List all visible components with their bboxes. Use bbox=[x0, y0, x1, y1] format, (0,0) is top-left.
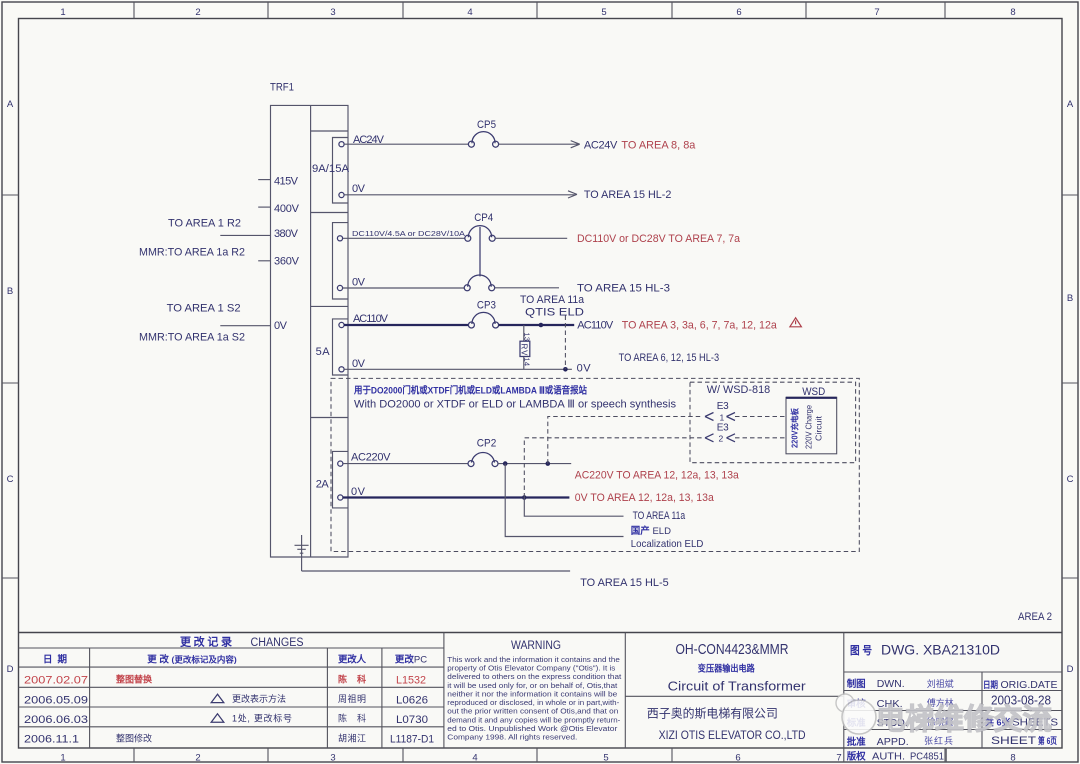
svg-text:out the prior written consent: out the prior written consent of Otis,an… bbox=[447, 709, 618, 716]
terminal DC w2 bbox=[337, 236, 342, 241]
svg-text:8: 8 bbox=[1010, 7, 1015, 18]
svg-text:A: A bbox=[1067, 99, 1074, 110]
wire AC110V left (thick) bbox=[344, 324, 468, 326]
svg-text:电梯维修交流: 电梯维修交流 bbox=[876, 702, 1052, 736]
left ruler letters bbox=[7, 99, 14, 675]
wire DC right bbox=[495, 237, 567, 239]
oh-con block borders bbox=[625, 633, 844, 749]
wire DC left bbox=[343, 237, 465, 239]
svg-text:WARNING: WARNING bbox=[511, 638, 561, 652]
svg-text:0V: 0V bbox=[351, 486, 366, 498]
svg-text:3: 3 bbox=[330, 7, 335, 18]
svg-text:1: 1 bbox=[720, 413, 725, 423]
winding box W2 bbox=[333, 223, 349, 299]
svg-text:D: D bbox=[1067, 664, 1074, 675]
svg-text:用于DO2000门机或XTDF门机或ELD或LAMBDA Ⅲ: 用于DO2000门机或XTDF门机或ELD或LAMBDA Ⅲ或语音报站 bbox=[353, 384, 587, 396]
warning triangle row3 bbox=[211, 714, 224, 722]
svg-text:0V: 0V bbox=[352, 358, 366, 370]
svg-text:D: D bbox=[7, 664, 14, 675]
svg-text:日期: 日期 bbox=[983, 679, 998, 690]
terminal AC24V bbox=[339, 142, 344, 147]
svg-text:制图: 制图 bbox=[847, 678, 866, 690]
right ruler letters bbox=[1067, 99, 1074, 675]
svg-text:XIZI OTIS ELEVATOR CO.,LTD: XIZI OTIS ELEVATOR CO.,LTD bbox=[659, 728, 806, 742]
fuse CP5 bbox=[468, 132, 498, 148]
dashed link WSD to E3 pin1 bbox=[735, 416, 786, 418]
svg-text:0V: 0V bbox=[274, 320, 288, 332]
fuse CP3 bbox=[468, 312, 498, 328]
svg-text:L1532: L1532 bbox=[396, 675, 426, 687]
ground bbox=[295, 535, 309, 571]
svg-text:图 号: 图 号 bbox=[850, 644, 872, 657]
svg-text:AC24V: AC24V bbox=[353, 134, 385, 146]
svg-text:DC110V or DC28V TO AREA 7, 7a: DC110V or DC28V TO AREA 7, 7a bbox=[577, 233, 741, 245]
svg-text:5: 5 bbox=[601, 7, 606, 18]
svg-text:5: 5 bbox=[603, 753, 608, 764]
svg-text:2: 2 bbox=[195, 753, 200, 764]
svg-text:AC110V: AC110V bbox=[353, 313, 389, 325]
svg-text:2006.06.03: 2006.06.03 bbox=[24, 714, 88, 726]
svg-text:demand it and any copies will: demand it and any copies will be promptl… bbox=[447, 717, 620, 724]
svg-text:ORIG.DATE: ORIG.DATE bbox=[1001, 679, 1058, 691]
wire 0V w1 with arrow bbox=[344, 191, 577, 198]
svg-text:it will be used only for, or o: it will be used only for, or on behalf o… bbox=[447, 683, 617, 690]
svg-text:TO AREA 11a: TO AREA 11a bbox=[520, 294, 585, 306]
wire 0V w3 bbox=[344, 368, 572, 370]
wire AC220V left bbox=[343, 463, 468, 465]
wire TO AREA 15 HL-5 bbox=[302, 570, 570, 572]
svg-text:TRF1: TRF1 bbox=[270, 82, 294, 94]
dwg block grid bbox=[844, 672, 1062, 748]
svg-text:7: 7 bbox=[836, 753, 841, 764]
varistor RV branch wire bbox=[523, 325, 525, 369]
changes row 2 bbox=[24, 693, 428, 706]
terminal AC220V bbox=[338, 461, 343, 466]
fuse CP4 pole2 bbox=[464, 275, 495, 291]
svg-text:C: C bbox=[1067, 474, 1074, 485]
svg-text:This work and the information: This work and the information it contain… bbox=[447, 657, 620, 664]
fuse CP4 gang link bbox=[479, 227, 481, 277]
dashed box WSD-818 bbox=[690, 382, 856, 463]
svg-text:CP3: CP3 bbox=[477, 300, 496, 312]
svg-text:CP2: CP2 bbox=[477, 437, 497, 449]
bottom ruler numbers bbox=[60, 753, 1015, 764]
winding box W1 bbox=[333, 138, 349, 204]
svg-text:AREA 2: AREA 2 bbox=[1018, 611, 1052, 623]
svg-text:1处, 更改标号: 1处, 更改标号 bbox=[232, 713, 292, 724]
svg-text:更 改 (更改标记及内容): 更 改 (更改标记及内容) bbox=[147, 654, 237, 666]
svg-text:8: 8 bbox=[1010, 753, 1015, 764]
dashed link 0V to E3 pin2 bbox=[524, 438, 703, 498]
svg-text:2007.02.07: 2007.02.07 bbox=[24, 675, 88, 687]
svg-text:TO AREA 1 S2: TO AREA 1 S2 bbox=[167, 303, 241, 315]
svg-text:C: C bbox=[7, 474, 14, 485]
svg-text:TO AREA 8, 8a: TO AREA 8, 8a bbox=[621, 140, 696, 152]
wire 0V w4 (thick) bbox=[343, 496, 569, 498]
svg-text:W/ WSD-818: W/ WSD-818 bbox=[707, 384, 771, 396]
svg-text:7: 7 bbox=[874, 7, 879, 18]
svg-text:1: 1 bbox=[60, 753, 65, 764]
svg-text:AC24V: AC24V bbox=[584, 140, 618, 152]
fuse CP2 bbox=[468, 453, 498, 467]
varistor RV body bbox=[520, 341, 530, 356]
dashed option box DO2000 bbox=[331, 378, 859, 551]
changes row 4 bbox=[24, 732, 434, 745]
svg-text:TO AREA 1 R2: TO AREA 1 R2 bbox=[168, 218, 241, 230]
svg-text:With DO2000 or XTDF or ELD or: With DO2000 or XTDF or ELD or LAMBDA Ⅲ o… bbox=[354, 398, 676, 410]
warning body text bbox=[447, 657, 621, 742]
svg-text:DWN.: DWN. bbox=[877, 678, 905, 690]
connector E3 pin1 arrows bbox=[705, 413, 735, 421]
svg-text:AC110V: AC110V bbox=[577, 319, 614, 331]
svg-text:E3: E3 bbox=[717, 422, 729, 433]
primary wire 0V bbox=[220, 325, 270, 327]
node dot AC220V b bbox=[546, 461, 551, 466]
terminal AC110V bbox=[339, 322, 344, 327]
transformer secondary dividers bbox=[311, 131, 348, 418]
svg-text:变压器输出电路: 变压器输出电路 bbox=[698, 663, 756, 674]
svg-text:reproduced or disclosed, in wh: reproduced or disclosed, in whole or in … bbox=[447, 700, 619, 707]
auth box bbox=[844, 748, 946, 762]
svg-text:6: 6 bbox=[735, 753, 740, 764]
primary tap 360V bbox=[258, 260, 270, 262]
svg-text:张红兵: 张红兵 bbox=[924, 735, 953, 746]
svg-text:2: 2 bbox=[719, 434, 724, 444]
svg-text:陈 科: 陈 科 bbox=[338, 713, 366, 724]
svg-text:TO AREA 15 HL-2: TO AREA 15 HL-2 bbox=[584, 189, 672, 201]
svg-text:L0626: L0626 bbox=[396, 694, 428, 706]
svg-text:0V: 0V bbox=[352, 183, 366, 195]
left ruler ticks bbox=[2, 195, 19, 578]
svg-text:周祖明: 周祖明 bbox=[338, 693, 366, 704]
primary tap 400V bbox=[258, 206, 270, 208]
wire 0V w2 right bbox=[495, 287, 559, 289]
terminal 0V w1 bbox=[339, 192, 344, 197]
svg-text:AC220V: AC220V bbox=[351, 451, 391, 463]
svg-text:更改人: 更改人 bbox=[338, 654, 366, 666]
svg-text:2: 2 bbox=[195, 7, 200, 18]
wire to AREA 11a bbox=[524, 498, 623, 517]
svg-text:L0730: L0730 bbox=[396, 714, 428, 726]
dashed stub QTIS ELD bbox=[564, 316, 566, 370]
svg-text:CP4: CP4 bbox=[474, 212, 493, 224]
primary tap 415V bbox=[258, 179, 270, 181]
wire AC220V right bbox=[498, 463, 571, 465]
svg-text:OH-CON4423&MMR: OH-CON4423&MMR bbox=[676, 641, 789, 658]
svg-text:TO AREA 3, 3a, 6, 7, 7a, 12, 1: TO AREA 3, 3a, 6, 7, 7a, 12, 12a bbox=[622, 319, 778, 331]
svg-text:CHANGES: CHANGES bbox=[251, 637, 304, 649]
svg-text:SHEET: SHEET bbox=[991, 735, 1036, 747]
svg-text:批准: 批准 bbox=[847, 736, 866, 748]
svg-text:14: 14 bbox=[523, 358, 532, 367]
svg-text:6: 6 bbox=[736, 7, 741, 18]
svg-text:delivered to others on the exp: delivered to others on the express condi… bbox=[447, 674, 621, 681]
bottom ruler dividers bbox=[134, 748, 945, 762]
svg-text:0V TO AREA 12, 12a, 13, 13a: 0V TO AREA 12, 12a, 13, 13a bbox=[575, 492, 715, 504]
svg-text:Circuit of Transformer: Circuit of Transformer bbox=[668, 679, 807, 694]
svg-text:220V充电板: 220V充电板 bbox=[790, 407, 800, 448]
svg-text:220V Charge: 220V Charge bbox=[805, 404, 814, 449]
node dot 0V w4 bbox=[522, 495, 527, 500]
svg-text:RV: RV bbox=[520, 344, 529, 357]
svg-text:360V: 360V bbox=[274, 256, 300, 268]
changes table header bbox=[43, 654, 427, 666]
svg-text:3: 3 bbox=[330, 753, 335, 764]
svg-text:WSD: WSD bbox=[802, 386, 825, 398]
svg-text:MMR:TO AREA 1a S2: MMR:TO AREA 1a S2 bbox=[139, 332, 245, 344]
svg-text:4: 4 bbox=[472, 753, 477, 764]
svg-text:B: B bbox=[1067, 293, 1073, 304]
svg-text:TO AREA 15 HL-5: TO AREA 15 HL-5 bbox=[580, 577, 669, 589]
svg-text:DWG. XBA21310D: DWG. XBA21310D bbox=[881, 642, 1000, 658]
svg-text:整图修改: 整图修改 bbox=[116, 732, 152, 743]
svg-text:ed to Otis. Unpublished: ed to Otis. Unpublished Work @Otis Eleva… bbox=[447, 726, 618, 733]
changes row 3 bbox=[24, 713, 428, 726]
svg-text:380V: 380V bbox=[274, 228, 299, 240]
svg-text:13: 13 bbox=[523, 333, 532, 342]
terminal 0V w4 bbox=[338, 495, 343, 500]
svg-text:E3: E3 bbox=[717, 401, 729, 412]
svg-text:TO AREA 6, 12, 15 HL-3: TO AREA 6, 12, 15 HL-3 bbox=[619, 352, 720, 364]
svg-text:日 期: 日 期 bbox=[43, 654, 67, 666]
transformer TRF1 outline bbox=[271, 105, 349, 557]
wire AC110V right (thick) bbox=[499, 324, 575, 326]
svg-text:A: A bbox=[7, 99, 14, 110]
terminal 0V w2 bbox=[337, 285, 342, 290]
svg-text:0V: 0V bbox=[577, 362, 592, 374]
winding box W3 bbox=[333, 319, 349, 375]
svg-text:CP5: CP5 bbox=[477, 119, 496, 131]
wire AC24V right with arrow bbox=[499, 141, 580, 148]
svg-text:AC220V TO AREA 12, 12a, 13, 13: AC220V TO AREA 12, 12a, 13, 13a bbox=[575, 469, 740, 481]
dashed link WSD to E3 pin2 bbox=[735, 437, 786, 439]
svg-text:Circuit: Circuit bbox=[815, 415, 824, 441]
changes table grid bbox=[19, 633, 444, 749]
svg-text:国产 ELD: 国产 ELD bbox=[631, 525, 671, 537]
title block top line bbox=[19, 632, 1063, 634]
svg-text:2A: 2A bbox=[316, 479, 330, 491]
node dot AC110V bbox=[539, 323, 544, 328]
warning triangle row2 bbox=[211, 694, 224, 702]
connector E3 pin2 arrows bbox=[705, 434, 735, 442]
svg-text:刘祖斌: 刘祖斌 bbox=[927, 678, 954, 689]
svg-text:AUTH.: AUTH. bbox=[872, 751, 905, 763]
svg-text:整图替换: 整图替换 bbox=[115, 674, 153, 685]
svg-text:西子奥的斯电梯有限公司: 西子奥的斯电梯有限公司 bbox=[647, 706, 778, 721]
svg-text:更改记录: 更改记录 bbox=[180, 635, 232, 649]
warning block border bbox=[624, 633, 626, 749]
svg-text:TO AREA 15 HL-3: TO AREA 15 HL-3 bbox=[577, 282, 670, 294]
svg-text:Company 1998. All rights rese: Company 1998. All rights reserved. bbox=[447, 735, 577, 742]
svg-text:5A: 5A bbox=[316, 346, 331, 358]
svg-text:415V: 415V bbox=[274, 176, 299, 188]
svg-text:0V: 0V bbox=[352, 277, 366, 289]
terminal 0V w3 bbox=[339, 367, 344, 372]
primary wire 380V bbox=[220, 234, 270, 236]
svg-text:property of Otis Elevator Comp: property of Otis Elevator Company ("Otis… bbox=[447, 666, 616, 673]
node dot 0V w3 bbox=[563, 367, 568, 372]
svg-text:B: B bbox=[7, 286, 13, 297]
svg-text:4: 4 bbox=[467, 7, 472, 18]
svg-text:更改PC: 更改PC bbox=[395, 654, 427, 666]
svg-text:APPD.: APPD. bbox=[877, 736, 909, 748]
svg-text:MMR:TO AREA 1a R2: MMR:TO AREA 1a R2 bbox=[139, 247, 245, 259]
svg-text:第 6页: 第 6页 bbox=[1038, 735, 1057, 746]
top ruler dividers bbox=[134, 2, 945, 19]
svg-text:2006.11.1: 2006.11.1 bbox=[24, 733, 79, 745]
wire AC24V left bbox=[344, 143, 468, 145]
svg-text:9A/15A: 9A/15A bbox=[312, 163, 350, 175]
svg-text:neither it nor the information: neither it nor the information it contai… bbox=[447, 691, 617, 698]
right ruler ticks bbox=[1062, 195, 1078, 578]
wire 0V w2 left bbox=[343, 287, 465, 289]
svg-text:DC110V/4.5A or DC28V/10A: DC110V/4.5A or DC28V/10A bbox=[352, 229, 465, 238]
svg-text:PC4851: PC4851 bbox=[910, 751, 944, 763]
WSD charge circuit box bbox=[786, 397, 837, 454]
svg-text:QTIS ELD: QTIS ELD bbox=[525, 306, 584, 318]
svg-text:Localization ELD: Localization ELD bbox=[631, 538, 704, 550]
svg-text:更改表示方法: 更改表示方法 bbox=[232, 693, 286, 704]
dashed link AC220V to E3 pin1 bbox=[548, 417, 703, 464]
watermark logo bbox=[836, 694, 876, 734]
warning triangle red bbox=[790, 318, 802, 327]
svg-text:L1187-D1: L1187-D1 bbox=[390, 733, 434, 745]
svg-text:版权: 版权 bbox=[846, 751, 866, 763]
changes row 1 (red) bbox=[24, 674, 426, 687]
wire to ELD bbox=[505, 464, 623, 537]
svg-text:TO AREA 11a: TO AREA 11a bbox=[633, 510, 686, 522]
top ruler numbers bbox=[60, 7, 1015, 18]
svg-text:陈 科: 陈 科 bbox=[338, 674, 366, 685]
svg-text:400V: 400V bbox=[274, 203, 300, 215]
fuse CP4 pole1 bbox=[465, 226, 495, 242]
svg-text:2006.05.09: 2006.05.09 bbox=[24, 694, 88, 706]
svg-text:1: 1 bbox=[60, 7, 65, 18]
winding box W4 bbox=[333, 451, 349, 508]
node dot AC220V a bbox=[503, 461, 508, 466]
svg-text:胡湘江: 胡湘江 bbox=[338, 732, 366, 743]
